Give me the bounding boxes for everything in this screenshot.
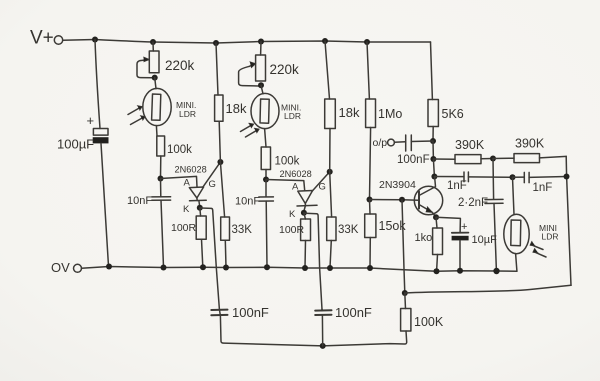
junction 0V at 150k [367, 265, 373, 271]
svg-text:220k: 220k [165, 58, 195, 73]
wire V+ to 100uF [95, 40, 100, 129]
svg-text:10nF: 10nF [235, 196, 260, 208]
svg-text:LDR: LDR [542, 232, 559, 242]
junction 0V at 33K2 [327, 265, 333, 271]
svg-text:1nF: 1nF [533, 182, 553, 194]
capacitor 1nF (left) [434, 172, 512, 192]
svg-text:220k: 220k [270, 62, 300, 77]
capacitor 10nF (stage2) [235, 180, 273, 268]
resistor 33K (stage2) [327, 217, 359, 268]
wire 5K6 node down [432, 141, 434, 159]
wire loop bottom right [405, 285, 571, 293]
wire K2 hook down to 100nF2 [305, 213, 322, 309]
junction pot2 wiper/bottom [258, 82, 264, 88]
svg-text:10nF: 10nF [127, 195, 152, 207]
junction top rail at 100uF branch [92, 37, 98, 43]
junction 0V at 2.2nF [493, 268, 499, 274]
potentiometer VR2 220k [239, 55, 299, 86]
potentiometer VR1 220k [137, 51, 195, 78]
node collector junction [431, 174, 437, 180]
resistor 1k0 [415, 217, 443, 270]
wire bottom 100nF bus [219, 309, 406, 346]
junction 0V at 1k0 [434, 268, 440, 274]
node V+ terminal [30, 28, 63, 49]
junction top rail at 1M0 branch [364, 39, 370, 45]
resistor 390K (right) [493, 137, 566, 163]
node G junction stage1 [217, 159, 223, 165]
capacitor 1nF (right) [513, 172, 567, 194]
resistor 100R (stage2) [279, 213, 311, 268]
svg-text:100k: 100k [275, 156, 300, 168]
node anode junction stage1 [158, 176, 164, 182]
wire G1 to 33K1 [220, 162, 224, 217]
capacitor 10uF [436, 217, 497, 270]
svg-text:100K: 100K [414, 315, 444, 329]
svg-text:K: K [289, 209, 296, 220]
svg-text:2·2nF: 2·2nF [458, 197, 488, 209]
junction 0V at 33K1 [223, 265, 229, 271]
wire LDR3 to rail end [516, 254, 517, 271]
node feedback junction on base wire [399, 197, 405, 203]
svg-text:LDR: LDR [179, 109, 196, 119]
svg-text:390K: 390K [515, 137, 545, 151]
output terminal o/p with 100nF [373, 135, 434, 166]
node o/p junction [430, 138, 436, 144]
wire G2 to 33K2 [330, 172, 332, 217]
junction 0V at 10nF1 [161, 265, 167, 271]
node K junction stage2 [301, 210, 307, 216]
photoresistor LDR3 mini LDR [504, 177, 559, 257]
svg-text:2N3904: 2N3904 [379, 179, 416, 191]
node anode junction stage2 [263, 177, 269, 183]
wire loop right vertical [566, 156, 571, 285]
svg-text:5K6: 5K6 [442, 107, 464, 121]
junction 0V at 10uF [457, 268, 463, 274]
svg-text:100nF: 100nF [397, 154, 430, 166]
svg-text:18k: 18k [226, 101, 247, 116]
wire V+ top rail [63, 40, 431, 44]
svg-text:18k: 18k [339, 105, 360, 120]
svg-text:+: + [87, 113, 95, 128]
capacitor 10nF (stage1) [127, 179, 171, 268]
svg-text:G: G [209, 179, 216, 190]
resistor 1M0 [366, 42, 403, 199]
junction top rail at pot1 branch [150, 39, 156, 45]
transistor Q3 2N3904 [379, 177, 443, 217]
resistor 33K (stage1) [221, 217, 253, 267]
resistor 100R (stage1) [171, 208, 206, 267]
capacitor 100nF (bottom stage1) [211, 305, 269, 320]
svg-text:o/p: o/p [373, 137, 388, 149]
svg-text:33K: 33K [338, 224, 359, 236]
svg-text:+: + [461, 221, 467, 233]
node K junction stage1 [197, 205, 203, 211]
node 1nF2/LDR3 junction [510, 174, 516, 180]
wire base wire [370, 199, 419, 202]
node right loop junction [564, 174, 570, 180]
svg-text:100nF: 100nF [232, 305, 269, 320]
wire LDR1 to 100k [155, 126, 158, 136]
node 0V terminal [51, 260, 82, 275]
junction 0V at 100uF [106, 264, 112, 270]
svg-text:V+: V+ [30, 28, 54, 49]
svg-text:LDR: LDR [284, 111, 301, 121]
svg-text:2N6028: 2N6028 [280, 169, 312, 179]
capacitor 100nF (bottom stage2) [315, 305, 372, 346]
svg-text:G: G [319, 182, 326, 193]
svg-text:2N6028: 2N6028 [175, 165, 207, 175]
junction top rail at 18k2 branch [322, 38, 328, 44]
wire LDR2 to 100k2 [265, 129, 266, 147]
svg-text:100k: 100k [167, 144, 192, 156]
node base bias junction [367, 197, 373, 203]
wire pot1 to LDR1 [155, 78, 156, 89]
junction 0V at 100R1 [200, 264, 206, 270]
svg-text:100nF: 100nF [335, 305, 372, 320]
wire down to collector node [433, 159, 434, 176]
resistor R 100k (stage2) [261, 147, 299, 170]
transistor Q1 2N6028 PUT [161, 162, 221, 215]
photoresistor LDR1 mini LDR [128, 88, 196, 125]
svg-text:100R: 100R [171, 222, 197, 234]
capacitor C 100uF [57, 113, 109, 152]
wire 100k2 to anode node [265, 170, 267, 180]
svg-text:OV: OV [51, 260, 70, 275]
svg-text:10µF: 10µF [472, 234, 498, 246]
junction pot1 wiper/bottom [152, 75, 158, 81]
svg-text:100R: 100R [279, 224, 305, 236]
svg-text:33K: 33K [232, 224, 253, 236]
resistor 18k (stage2) [325, 41, 360, 172]
wire feedback vertical down [402, 200, 405, 293]
wire K1 hook down to 100nF1 [201, 208, 219, 309]
junction top rail at 18k1 branch [213, 40, 219, 46]
resistor 150k [365, 200, 407, 268]
wire rail to pot2 [260, 42, 262, 56]
node emitter junction [433, 214, 439, 220]
transistor Q2 2N6028 PUT [266, 169, 330, 220]
svg-text:1ko: 1ko [415, 232, 433, 244]
wire 100k to anode node [160, 156, 162, 178]
capacitor 2.2nF [458, 159, 503, 271]
node mid 390K junction [490, 156, 496, 162]
node 390K junction [430, 156, 436, 162]
junction bottom bus at 100nF2 [320, 343, 326, 349]
wire pot2 to LDR2 [261, 85, 263, 94]
svg-text:1nF: 1nF [447, 180, 467, 192]
junction 0V at 10nF2 [264, 264, 270, 270]
photoresistor LDR2 mini LDR [241, 93, 302, 137]
wire 0V rail [82, 267, 518, 272]
wire rail to pot1 [152, 42, 154, 51]
wire 100uF to 0V rail [101, 143, 109, 266]
junction top rail at pot2 branch [258, 39, 264, 45]
resistor 100K (feedback) [401, 293, 444, 331]
svg-text:1Mo: 1Mo [378, 107, 402, 121]
resistor R 100k (stage1) [157, 136, 192, 156]
node G junction stage2 [327, 169, 333, 175]
resistor 390K (left) [433, 138, 492, 164]
resistor 18k (stage1) [215, 43, 247, 162]
svg-text:K: K [183, 204, 190, 215]
resistor 5K6 [428, 42, 464, 141]
junction 0V at 100R2 [302, 265, 308, 271]
svg-text:100µF: 100µF [57, 137, 94, 152]
svg-text:390K: 390K [455, 138, 485, 152]
node loop junction below rail [402, 290, 408, 296]
